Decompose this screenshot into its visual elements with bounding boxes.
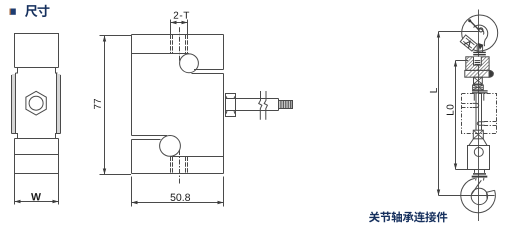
caption glyph 连 [414,212,425,223]
bottom block internal line [15,154,59,156]
bottom edge [132,173,224,175]
top hole thread lines (dashed) [171,35,188,54]
top hole center line [179,27,181,62]
L0 arrows [454,61,457,170]
bottom hook upper curl [472,180,482,194]
rod through cell [476,94,482,131]
caption glyph 承 [403,212,414,222]
strip bottom steps [12,134,61,139]
bottom hole thread lines (dashed) [171,157,188,174]
bearing cross bar [465,70,494,77]
L0 dimension extension top [456,60,469,62]
bottom wide band [472,176,488,178]
top hook inner curve [474,25,488,46]
lower slot relief circle [160,136,181,157]
2-T extension lines [171,20,188,35]
cable break mark 2 [264,91,267,120]
bottom hole center line [179,150,181,184]
L arrows [437,32,440,196]
bottom hook shank [476,178,484,181]
2-T arrows [171,21,188,24]
L0 dimension extension bottom [456,169,468,171]
phantom upper slot [462,104,473,108]
right side strip [57,73,61,134]
50.8 extension lines [132,177,224,207]
bottom block [468,146,490,170]
left side strip [12,73,16,134]
top hook latch pin [470,21,479,30]
phantom upper slot round end [473,103,479,107]
50.8 label [171,194,191,201]
cable break mark 1 [259,91,262,120]
latch pivot dot [468,19,471,22]
cable nut [226,94,236,117]
caption 关节轴承连接件 [369,212,380,223]
body outline: top edge [132,34,224,36]
W label [31,193,41,200]
nut chamfer arcs [226,96,236,114]
upper slot relief circle [180,54,199,73]
right edge (gap at upper slot) [223,35,225,174]
bottom collar band [473,173,486,175]
W extension lines [15,174,59,205]
top hole inner lines (dashed) [173,35,186,54]
title square bullet [10,9,16,15]
lower thin slot lines [132,136,168,140]
L dimension line [438,32,440,196]
flare trapezoid [469,139,487,146]
cable rod segment 1 [236,99,279,111]
50.8 dimension line [132,202,224,204]
W dimension line [15,201,59,203]
collar under top hook [473,52,486,54]
bottom hole inner lines (dashed) [173,157,186,174]
lower arm top line [170,156,224,158]
bottom block outline [15,139,59,174]
hex center hole [29,96,43,110]
W dim arrows [15,200,59,203]
load cell phantom outline (dash-dot) [462,94,497,134]
upper thin slot lines [192,70,224,74]
2-T dimension line [171,22,188,24]
latch end loop [479,28,483,32]
top hook tip wedge [478,43,484,50]
threaded stud into cell [473,85,484,90]
lower threaded section [473,130,483,139]
cable rod segment 2 [278,99,280,111]
bottom hook tip beak [487,190,495,199]
phantom lower slot [484,122,497,126]
bottom block hole [474,148,483,157]
L0 label [447,105,454,115]
L label [430,88,437,92]
L dimension extension top [439,31,479,33]
RIGHT ASSEMBLY VIEW [462,10,498,222]
77 arrows [103,36,106,175]
top hook outer circle [462,15,498,51]
top hook latch tag (white fill) [460,35,477,51]
rod top bushing sides [474,93,484,100]
top bearing block (hatched) [466,57,489,71]
left edge (gap at lower slot) [131,35,133,174]
caption glyph 轴 [391,212,401,223]
right side strip fill [57,74,61,134]
50.8 arrows [132,201,224,204]
left side strip fill [12,74,16,134]
title glyph 寸 [37,5,49,17]
top hook wire inner edge [478,29,484,35]
bottom hook outer arc [461,178,496,212]
2-T label [174,12,189,19]
bottom hook inner eye [471,188,487,204]
assembly center line [478,10,480,222]
77 extension lines [100,36,132,175]
bottom neck [475,170,485,173]
caption glyph 件 [436,212,447,223]
top hook shank [477,45,482,53]
cable braided end block [279,101,293,109]
caption glyph 接 [425,212,436,223]
rod top nut bands [472,91,488,93]
phantom lower slot round end [477,122,484,125]
77 dimension line [104,36,106,175]
lock nut bowtie [474,77,483,84]
braid hatch lines [280,101,292,109]
L0 dimension line [455,61,457,170]
upper arm bottom line [132,53,189,55]
caption glyph 节 [380,212,390,223]
top block outline [15,34,59,68]
top block bottom edge with corner notches [15,68,59,74]
77 label [94,99,101,109]
L dimension extension bottom [439,195,495,197]
hex nut on face [26,91,46,115]
title text 尺寸 [25,5,38,17]
